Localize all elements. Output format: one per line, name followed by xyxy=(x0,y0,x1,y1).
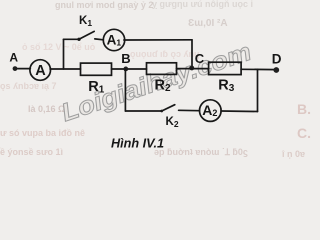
svg-text:D: D xyxy=(272,52,282,67)
svg-text:Hình IV.1: Hình IV.1 xyxy=(111,135,164,150)
svg-text:ỵ gưgηu ưú nôigň uọc i: ỵ gưgηu ưú nôigň uọc i xyxy=(152,0,253,9)
wire R2 to R3 xyxy=(177,68,209,70)
svg-text:ǫs ʎnbɔɐ ıạ 7: ǫs ʎnbɔɐ ıạ 7 xyxy=(0,81,57,91)
svg-text:ề ýonsề sưo 1ì: ề ýonsề sưo 1ì xyxy=(0,147,63,157)
svg-text:ỏ số 12 V ~ 0ể uỏ: ỏ số 12 V ~ 0ể uỏ xyxy=(22,42,96,52)
terminal D xyxy=(273,67,279,73)
wire R1 to R2 xyxy=(112,68,147,70)
resistor R3 xyxy=(209,62,242,74)
switch K2 blade xyxy=(162,105,175,111)
svg-text:C: C xyxy=(195,51,205,66)
svg-text:B.: B. xyxy=(297,101,311,117)
node B xyxy=(123,67,128,72)
svg-text:ư só vupa ba iđồ nê: ư só vupa ba iđồ nê xyxy=(0,128,85,138)
svg-text:C.: C. xyxy=(297,125,311,141)
node C xyxy=(189,66,194,71)
svg-text:î ņ 0ɐ: î ņ 0ɐ xyxy=(281,149,305,159)
wire switch K1 to ammeter A1 xyxy=(95,38,104,41)
bottom wire corner to A2 xyxy=(221,110,258,113)
wire A2 to switch K2 xyxy=(179,109,200,111)
svg-text:A: A xyxy=(9,50,18,64)
svg-text:A: A xyxy=(35,63,46,79)
bottom wire K2 to B xyxy=(125,110,161,112)
ammeter A xyxy=(30,60,51,81)
right vertical wire xyxy=(257,69,259,111)
switch K1 pivot xyxy=(77,38,80,41)
switch K1 blade xyxy=(79,31,94,39)
junction vertical wire xyxy=(63,39,65,69)
ammeter A1 xyxy=(103,29,124,50)
wire A to ammeter xyxy=(15,68,30,70)
svg-text:B: B xyxy=(121,51,130,66)
resistor R1 xyxy=(81,63,112,75)
terminal A xyxy=(13,66,18,71)
ammeter A2 xyxy=(200,100,222,122)
top right vertical wire xyxy=(191,40,193,69)
svg-text:ǝp ƃuờnʇ ɐnòɯ ˙Ʇ ƃ0ϛ: ǝp ƃuờnʇ ɐnòɯ ˙Ʇ ƃ0ϛ xyxy=(154,147,248,157)
svg-text:Ɛɯ,0Ɩ ²A: Ɛɯ,0Ɩ ²A xyxy=(188,18,228,29)
wire R3 to D xyxy=(241,68,276,70)
switch K2 pivot xyxy=(160,110,163,113)
wire A1 to corner xyxy=(124,39,192,41)
resistor R2 xyxy=(147,63,177,75)
top wire to switch K1 xyxy=(64,38,80,40)
svg-text:gnul mơi mod gnaỳ ỷ 2: gnul mơi mod gnaỳ ỷ 2 xyxy=(55,0,153,10)
wire ammeter to R1 xyxy=(50,68,80,70)
vertical wire from node B xyxy=(124,69,126,111)
